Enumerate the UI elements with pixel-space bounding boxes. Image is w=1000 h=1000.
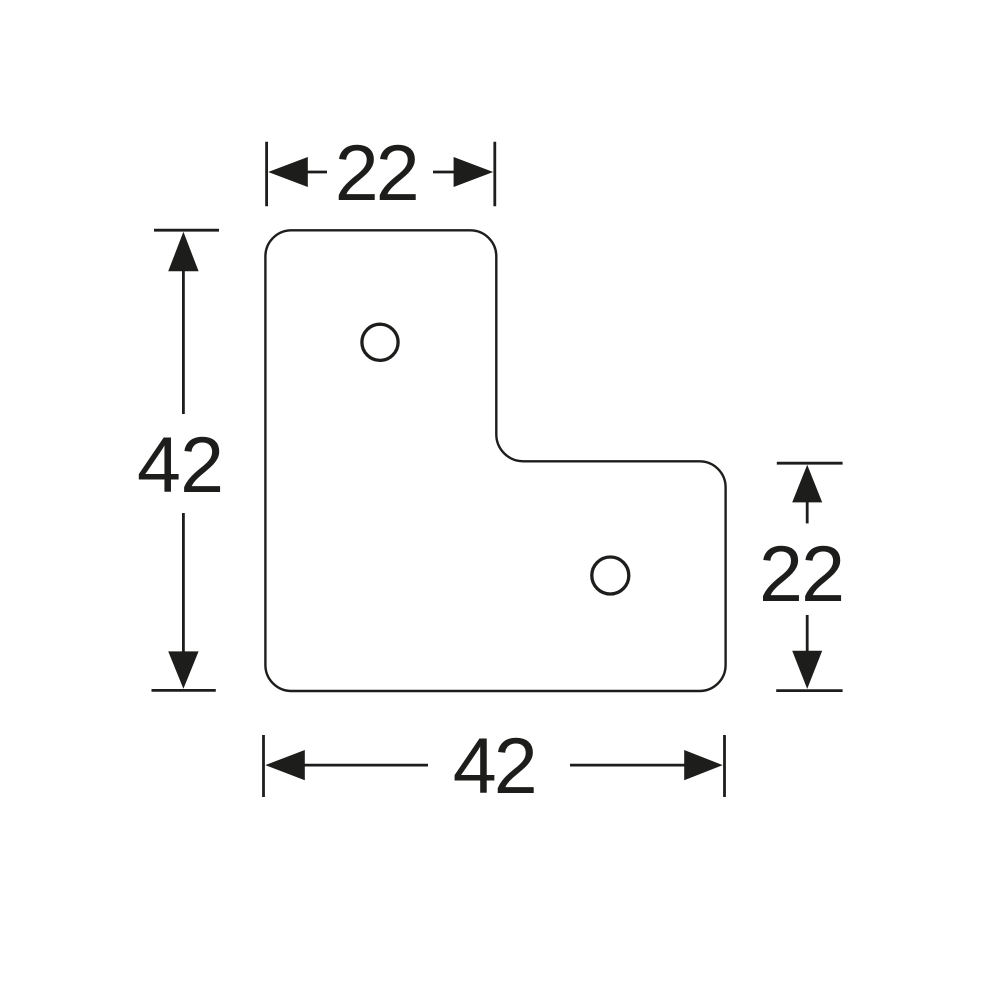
svg-text:42: 42	[453, 721, 538, 810]
svg-text:22: 22	[759, 529, 845, 618]
svg-text:22: 22	[335, 128, 420, 217]
svg-text:42: 42	[137, 420, 224, 509]
